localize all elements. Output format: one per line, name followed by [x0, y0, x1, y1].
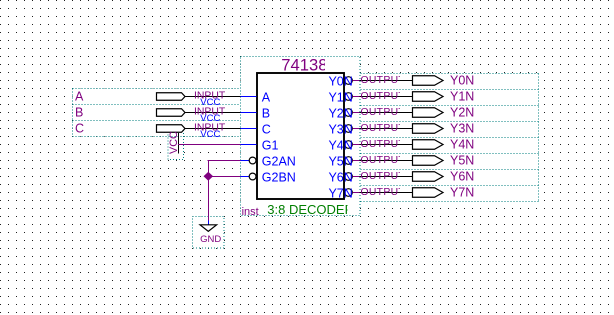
IC pin name Y3N + bubble [328, 122, 352, 136]
IC pin name Y4N + bubble [328, 138, 352, 152]
wire: Y1N bubble to output pin (purple) [352, 96, 359, 98]
wire: G2BN horizontal (purple) [208, 176, 240, 178]
wire: Y0N bubble to output pin (purple) [352, 80, 359, 82]
selection box: VCC symbol [168, 128, 184, 160]
selection boxes: output pins Y0N-Y7N [361, 74, 539, 202]
wire: G2AN horizontal (purple) [208, 160, 241, 162]
svg-text:Y0N: Y0N [328, 74, 352, 88]
input pin C symbol [75, 122, 241, 140]
wire: Y4N bubble to output pin (purple) [352, 144, 359, 146]
wire: G2AN segment (blue) [241, 160, 250, 162]
output pin Y5N symbol [360, 154, 475, 168]
wire: GND stub (blue) [208, 221, 210, 226]
svg-text:OUTPUT: OUTPUT [361, 155, 406, 166]
svg-text:Y3N: Y3N [450, 122, 474, 136]
svg-text:OUTPUT: OUTPUT [361, 91, 406, 102]
wire: G1 segment (blue) [241, 144, 257, 146]
bubble G2AN [249, 157, 256, 164]
white fill: input pin symbol area [73, 88, 241, 136]
IC pin name Y0N + bubble [328, 74, 352, 88]
svg-text:Y3N: Y3N [328, 122, 352, 136]
svg-text:A: A [75, 90, 84, 104]
output pin Y1N symbol [360, 90, 475, 104]
white fill: output pin symbol area [360, 74, 539, 202]
svg-text:Y0N: Y0N [450, 74, 474, 88]
VCC power symbol [168, 131, 180, 154]
wire: Y5N bubble to output pin (purple) [352, 160, 359, 162]
svg-text:G1: G1 [262, 138, 279, 152]
wire: vertical to GND (purple) [208, 160, 210, 221]
svg-text:74138: 74138 [281, 56, 327, 75]
wire: Y7N bubble to output pin (purple) [352, 192, 359, 194]
svg-text:VCC: VCC [168, 131, 180, 154]
input pin B symbol [75, 106, 241, 124]
output pin Y3N symbol [360, 122, 475, 136]
selection box: 74138 symbol [241, 57, 361, 216]
wire: net B to IC pin [241, 112, 257, 114]
wire: G2BN segment (blue) [241, 176, 250, 178]
svg-text:Y6N: Y6N [450, 170, 474, 184]
bubble G2BN [249, 173, 256, 180]
selection box: GND symbol [193, 217, 225, 249]
svg-text:OUTPUT: OUTPUT [361, 123, 406, 134]
svg-text:OUTPUT: OUTPUT [361, 187, 406, 198]
IC pin name Y7N + bubble [328, 186, 352, 200]
symbol note 3:8 DECODER (clipped) [267, 202, 354, 217]
svg-text:VCC: VCC [200, 129, 220, 140]
svg-text:Y1N: Y1N [328, 90, 352, 104]
input pin A symbol [75, 90, 241, 108]
output pin Y2N symbol [360, 106, 475, 120]
svg-text:OUTPUT: OUTPUT [361, 107, 406, 118]
svg-text:OUTPUT: OUTPUT [361, 171, 406, 182]
GND symbol [200, 225, 221, 245]
svg-text:G2BN: G2BN [262, 170, 296, 184]
white fill: 74138 symbol selection area [241, 56, 361, 216]
svg-text:OUTPUT: OUTPUT [361, 139, 406, 150]
selection boxes: input pins A,B,C [73, 89, 241, 137]
svg-text:Y4N: Y4N [450, 138, 474, 152]
IC U1 74138 body [257, 73, 344, 199]
svg-text:B: B [262, 106, 270, 120]
junction node [204, 172, 214, 181]
svg-text:G2AN: G2AN [262, 154, 296, 168]
output pin Y0N symbol [360, 74, 475, 88]
svg-text:Y6N: Y6N [328, 170, 352, 184]
IC pin name Y5N + bubble [328, 154, 352, 168]
svg-text:Y2N: Y2N [328, 106, 352, 120]
svg-text:A: A [262, 90, 271, 104]
svg-text:Y4N: Y4N [328, 138, 352, 152]
wire: Y3N bubble to output pin (purple) [352, 128, 359, 130]
svg-text:Y2N: Y2N [450, 106, 474, 120]
svg-text:C: C [262, 122, 271, 136]
IC pin name Y1N + bubble [328, 90, 352, 104]
svg-text:Y5N: Y5N [450, 154, 474, 168]
white fill: GND symbol area [192, 216, 224, 248]
svg-text:Y1N: Y1N [450, 90, 474, 104]
wire: Y6N bubble to output pin (purple) [352, 176, 359, 178]
wire: VCC to G1 (purple) [178, 144, 241, 146]
white fill: VCC symbol area [168, 128, 184, 160]
svg-text:C: C [75, 122, 84, 136]
wire: Y2N bubble to output pin (purple) [352, 112, 359, 114]
svg-text:GND: GND [200, 234, 221, 245]
svg-text:Y5N: Y5N [328, 154, 352, 168]
IC pin name Y2N + bubble [328, 106, 352, 120]
IC pin name Y6N + bubble [328, 170, 352, 184]
wire: net A to IC pin [241, 96, 257, 98]
IC title 74138 (clipped) [281, 56, 327, 75]
svg-text:OUTPUT: OUTPUT [361, 75, 406, 86]
wire: net C to IC pin [241, 128, 257, 130]
output pin Y4N symbol [360, 138, 475, 152]
svg-text:3:8 DECODER: 3:8 DECODER [267, 202, 354, 217]
svg-text:inst: inst [242, 206, 259, 218]
svg-text:Y7N: Y7N [328, 186, 352, 200]
svg-text:Y7N: Y7N [450, 186, 474, 200]
svg-text:B: B [75, 106, 83, 120]
output pin Y6N symbol [360, 170, 475, 184]
output pin Y7N symbol [360, 186, 475, 200]
